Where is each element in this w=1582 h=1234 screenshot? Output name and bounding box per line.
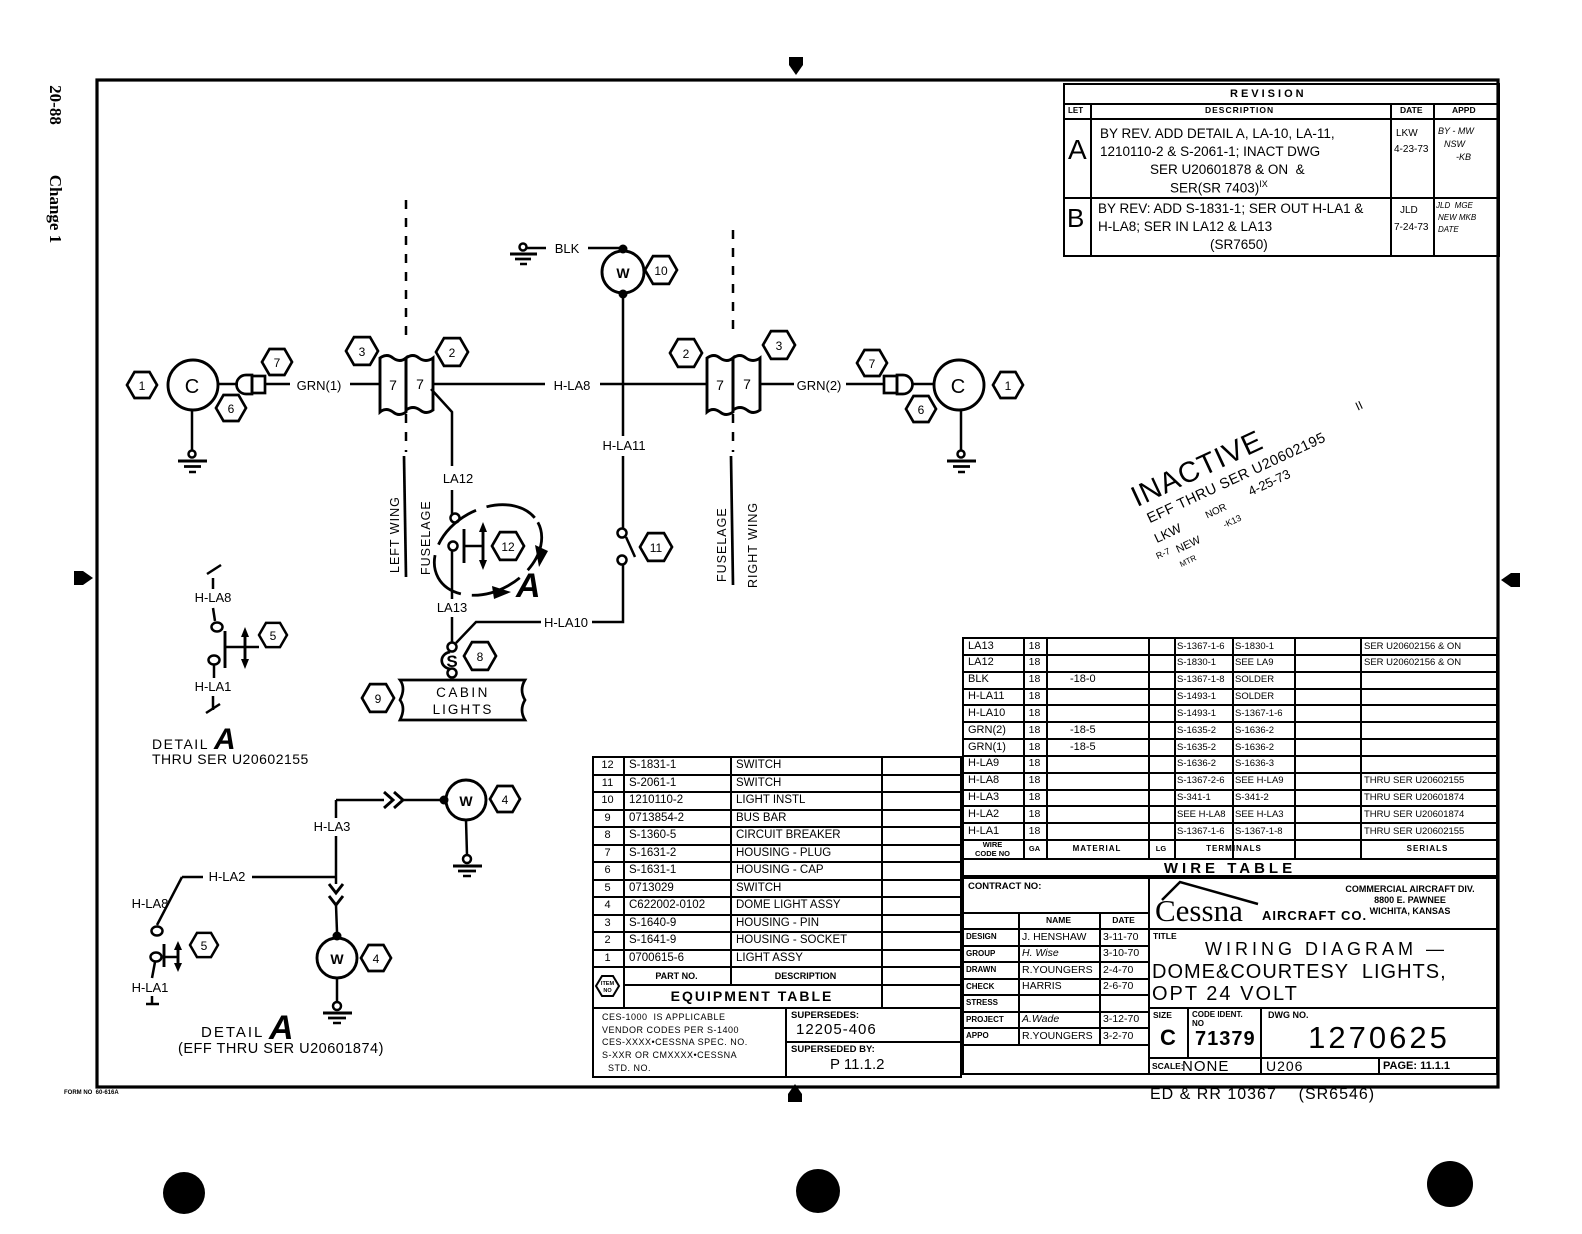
item tag 10: [645, 256, 677, 284]
wire LA13: [437, 550, 467, 642]
ground under right lamp C2: [947, 410, 976, 472]
item tag 4 (lower lamp): [361, 945, 391, 971]
title block: [1155, 893, 1243, 929]
item tag 2 left: [436, 338, 468, 366]
item tag 7 left: [262, 349, 292, 375]
wire connector to C2: [913, 383, 934, 386]
wire GRN(2): [760, 378, 884, 393]
inactive stamp annotation: [1124, 380, 1393, 577]
ground under lower lamp W4: [323, 978, 352, 1023]
lamp C1 left courtesy light: [168, 360, 218, 410]
item tag 5 (upper detail): [259, 623, 287, 647]
svg-text:3: 3: [776, 339, 783, 353]
item tag 3 right: [763, 331, 795, 359]
svg-text:7: 7: [416, 376, 424, 392]
wire H-LA10: [456, 565, 623, 643]
svg-text:ITEM: ITEM: [601, 981, 615, 987]
item tag 1 (light assy, left): [127, 372, 157, 398]
svg-text:CABIN: CABIN: [436, 685, 490, 700]
wire LA12 from connector to switch: [431, 389, 473, 514]
right registration mark: [1501, 573, 1520, 587]
svg-text:W: W: [616, 265, 630, 281]
switch S11: [618, 529, 636, 565]
item tag 7 right: [857, 350, 887, 376]
svg-text:6: 6: [228, 402, 235, 416]
cabin lights bus box: [400, 680, 525, 720]
wire H-LA2: [157, 869, 336, 925]
ground under left lamp C1: [178, 410, 207, 472]
lamp C2 right courtesy light: [934, 360, 984, 410]
svg-text:LA12: LA12: [443, 471, 473, 486]
svg-text:H-LA1: H-LA1: [195, 679, 232, 694]
svg-text:-K13: -K13: [1221, 513, 1242, 530]
detail A (upper): wire H-LA8: [195, 565, 232, 621]
svg-text:8: 8: [477, 650, 484, 664]
svg-text:H-LA1: H-LA1: [132, 980, 169, 995]
svg-text:H-LA8: H-LA8: [195, 590, 232, 605]
svg-text:7: 7: [869, 357, 876, 371]
item tag 6 right: [906, 396, 936, 422]
page header 20-88: [45, 78, 65, 132]
connector J-left wing root (7|7): [380, 356, 433, 415]
detail A (upper): wire H-LA1: [195, 665, 232, 713]
svg-text:GRN(1): GRN(1): [297, 378, 342, 393]
svg-text:LEFT WING: LEFT WING: [388, 496, 402, 573]
svg-text:5: 5: [270, 629, 277, 643]
svg-text:LIGHTS: LIGHTS: [433, 702, 494, 717]
junction at dome lamp top: [619, 245, 628, 254]
connector J-right wing root (7|7): [707, 356, 760, 415]
svg-text:4: 4: [373, 952, 380, 966]
svg-text:2: 2: [449, 346, 456, 360]
svg-text:H-LA8: H-LA8: [554, 378, 591, 393]
wire H-LA3 with flow arrows: [314, 792, 440, 932]
svg-text:H-LA11: H-LA11: [602, 438, 645, 453]
item tag 12: [492, 532, 524, 560]
switch S12 (dome light switch): [449, 514, 488, 571]
svg-text:9: 9: [375, 692, 382, 706]
detail A (lower): lamp W4 upper: [440, 780, 487, 820]
svg-text:RIGHT WING: RIGHT WING: [746, 502, 760, 588]
detail A (lower): switch item 5: [151, 927, 183, 973]
wire from C1 to connector: [218, 383, 238, 386]
wire table: [962, 637, 1498, 877]
svg-text:5: 5: [201, 939, 208, 953]
fuselage / right wing match line: [715, 230, 760, 588]
wire H-LA1 (lower detail): [132, 962, 169, 1004]
ground for BLK wire: [510, 244, 537, 265]
sheet border frame: [97, 80, 1498, 1087]
svg-text:7: 7: [716, 377, 724, 393]
svg-text:2: 2: [683, 347, 690, 361]
detail A callout ellipse: [418, 487, 557, 614]
binder hole right: [1427, 1161, 1473, 1207]
revision table: [1063, 83, 1500, 257]
svg-text:FUSELAGE: FUSELAGE: [419, 500, 433, 575]
svg-text:7: 7: [389, 377, 397, 393]
svg-text:DETAIL: DETAIL: [201, 1024, 264, 1041]
svg-text:C: C: [185, 376, 199, 398]
connector pair items 6/7 left: [237, 375, 266, 394]
wire GRN(1): [265, 378, 380, 393]
svg-text:10: 10: [654, 264, 668, 278]
item tag 9 (bus bar): [362, 684, 394, 712]
wire H-LA11: [602, 298, 645, 528]
svg-text:C: C: [951, 376, 965, 398]
svg-text:II: II: [1353, 398, 1365, 414]
svg-text:FUSELAGE: FUSELAGE: [715, 507, 729, 582]
svg-text:7: 7: [274, 356, 281, 370]
bottom registration mark: [788, 1084, 802, 1102]
item tag 8: [464, 642, 496, 670]
svg-text:R-7: R-7: [1154, 546, 1171, 561]
top registration mark: [789, 57, 803, 75]
svg-text:7: 7: [743, 376, 751, 392]
detail A (upper): switch item 5: [209, 623, 260, 670]
item tag 1 right: [993, 372, 1023, 398]
svg-text:NO: NO: [603, 988, 612, 994]
item tag 6 left: [216, 395, 246, 421]
circuit breaker item 8: [442, 643, 458, 678]
ground under upper lamp W4: [453, 820, 482, 876]
svg-text:H-LA3: H-LA3: [314, 819, 351, 834]
wire BLK: [527, 241, 621, 256]
left wing / fuselage match line: [388, 200, 433, 577]
item tag 11: [640, 533, 672, 561]
svg-text:LA13: LA13: [437, 600, 467, 615]
svg-text:4: 4: [502, 793, 509, 807]
junction at lower lamp top: [333, 932, 342, 941]
svg-text:12: 12: [501, 540, 515, 554]
svg-text:H-LA2: H-LA2: [209, 869, 246, 884]
wire H-LA8 between connectors: [433, 378, 706, 393]
svg-text:H-LA8: H-LA8: [132, 896, 169, 911]
svg-text:11: 11: [650, 541, 663, 555]
svg-text:THRU SER U20602155: THRU SER U20602155: [152, 751, 309, 767]
equipment table: [592, 756, 962, 1078]
svg-text:W: W: [330, 951, 344, 967]
left registration mark: [74, 571, 93, 585]
svg-text:6: 6: [918, 403, 925, 417]
svg-text:1: 1: [139, 379, 146, 393]
detail A (upper) caption: [152, 723, 309, 767]
svg-text:A: A: [515, 567, 541, 605]
binder hole center: [796, 1169, 840, 1213]
svg-text:DETAIL: DETAIL: [152, 736, 209, 752]
svg-text:MTR: MTR: [1178, 553, 1198, 569]
contract / approvals block: [962, 877, 1498, 1075]
svg-text:1: 1: [1005, 379, 1012, 393]
svg-text:NEW: NEW: [1174, 534, 1203, 556]
binder hole left: [163, 1172, 205, 1214]
page header Change 1: [45, 169, 65, 249]
sheet footer annotations: [64, 1090, 119, 1096]
svg-text:(EFF THRU SER U20601874): (EFF THRU SER U20601874): [178, 1041, 384, 1057]
lamp W10 dome light: [602, 251, 644, 299]
svg-text:S: S: [446, 652, 457, 671]
svg-text:W: W: [459, 793, 473, 809]
svg-text:3: 3: [359, 345, 366, 359]
connector pair items 6/7 right: [884, 375, 913, 394]
item tag 2 right: [670, 339, 702, 367]
item tag 4 (upper lamp): [490, 786, 520, 812]
svg-text:BLK: BLK: [555, 241, 580, 256]
item tag 3 left: [346, 337, 378, 365]
svg-text:H-LA10: H-LA10: [544, 615, 588, 630]
svg-text:GRN(2): GRN(2): [797, 378, 842, 393]
detail A (lower) caption: [178, 1009, 384, 1057]
item tag 5 (lower detail): [190, 933, 218, 957]
detail A (lower): lamp W4 lower: [317, 938, 357, 978]
